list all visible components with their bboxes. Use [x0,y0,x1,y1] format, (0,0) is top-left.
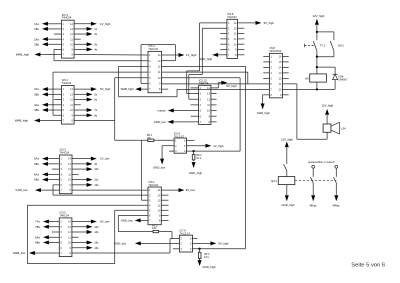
IC5.3 pin3 stub [52,168,60,170]
resistor R9.4 [198,249,216,269]
IC5.10 masse arrow [174,110,199,112]
IC5.10 pin2 riser [187,93,199,95]
svg-text:48Vac: 48Vac [309,203,317,207]
svg-text:1V_high: 1V_high [213,144,224,148]
IC5.3 pin numbers 1-14 [61,157,72,193]
svg-text:74HC04: 74HC04 [199,81,209,85]
IC5.5 body and designator [59,218,72,257]
svg-text:GND_high: GND_high [189,171,203,175]
connector right stubs [283,55,289,57]
svg-text:7Ax: 7Ax [35,220,40,224]
svg-text:5Ax: 5Ax [34,157,39,161]
IC5.1 output wire+arrow node 3x [74,42,98,46]
IC IC5.4 (74HC04) [148,44,162,93]
svg-text:7Bx: 7Bx [35,225,40,229]
svg-text:12V_high: 12V_high [281,137,293,141]
svg-text:8Bx: 8Bx [35,241,40,245]
svg-text:LS4: LS4 [341,126,346,130]
IC5.5 output wire+arrow node 16x [72,246,99,250]
IC5.3 output wire+arrow node 12x [72,183,99,187]
IC5.1 input wire+arrow node 2Bx [34,42,61,46]
IC5.4 feedback loop top [141,82,148,84]
IC5.5 pin numbers 1-14 [60,220,71,256]
IC5.2 pin numbers 1-14 [63,87,74,122]
svg-text:3Ax: 3Ax [34,87,39,91]
IC6.1 GND_low arrow [141,219,149,221]
IC IC5.3 (74HC04) [16,148,111,194]
bus wire to connector pin7 [177,88,269,90]
IC5.5 output wire+arrow node 14x [72,230,99,234]
IC5.5 input wire+arrow node 8Ax [35,235,59,239]
IC7.9 GND_low arrow [141,242,180,244]
svg-text:1V_low: 1V_low [100,157,110,161]
wire R5.1 to IC6.9 pin1 [115,139,148,141]
svg-text:74HC04: 74HC04 [227,15,237,19]
svg-text:1V_high: 1V_high [100,22,111,26]
wire connector pin6 to buzzer loop [283,83,297,85]
wire IC2 pin6 riser to IC5.4 pin4 [53,114,62,116]
IC5.3 input wire+arrow node 5Ax [34,157,59,161]
IC5.5 pin3 stub [52,231,60,233]
junction R9.2 [192,150,194,152]
IC5.3 input wire+arrow node 6Ax [34,172,59,176]
IC5.1 input wire+arrow node 1Bx [34,27,61,31]
IC IC5.10 (74HC04) [199,78,211,124]
IC6.9 pin2 GND_low drop [162,145,174,147]
IC5.8 pin2 wire to bus riser [202,27,227,29]
relay coil K9 [305,74,326,82]
bus wire h2 [189,74,203,76]
IC5.1 input wire+arrow node 2Ax [34,37,61,41]
wire into IC7.9 pin1 [170,238,179,240]
svg-text:1N4007: 1N4007 [338,77,348,81]
wire IC5.5 pin8 to IC7.9 pin1 net [72,252,170,254]
svg-text:2Bx: 2Bx [34,42,39,46]
wire branch to K9.1 [317,31,334,33]
IC5.5 output node 5V_low [72,220,110,224]
switch T7.1 [313,41,325,57]
svg-text:12V_high: 12V_high [313,14,325,18]
switch contact Q9.1 [284,164,287,176]
svg-text:13x: 13x [94,225,99,229]
IC6.9 pin6 stub [187,139,195,141]
svg-text:6Bx: 6Bx [34,178,39,182]
node 12V_high buzzer [321,103,333,124]
wire IC5.3 pin8 to IC6.1 pin1 [72,189,148,191]
IC5.8 pin1 wire to bus riser [200,22,227,24]
wire IC6.1 pin6 drop to R5.2 [118,214,148,216]
IC5.5 input wire+arrow node 7Ax [35,220,59,224]
riser IC5.8 pin2 [201,28,203,74]
svg-text:GND_high: GND_high [203,265,217,269]
IC5.5 node WAB_low [13,251,59,255]
svg-text:GND_low: GND_low [153,166,166,170]
svg-text:austauschbar in zukunft: austauschbar in zukunft [308,161,335,164]
svg-text:masse: masse [157,109,166,113]
IC5.5 output wire+arrow node 15x [72,241,99,245]
svg-text:9V_high: 9V_high [226,84,237,88]
mechanical link dashed [295,179,337,181]
svg-text:9V_low: 9V_low [186,188,196,192]
svg-text:WAB_high: WAB_high [16,53,30,57]
resistor R5.2 [118,223,172,238]
IC5.2 input wire+arrow node 3Bx [34,92,61,96]
IC5.1 pin11 stub [74,38,81,40]
svg-text:10x: 10x [94,167,99,171]
IC5.5 pin11 stub [72,236,79,238]
wire IC1 pin8 to IC5.4 pin1 [74,54,148,56]
svg-text:1V_high: 1V_high [186,53,197,57]
IC5.3 pin11 stub [72,173,79,175]
IC5.8 left stubs [220,33,227,35]
wire rejoin switches [317,56,334,58]
svg-text:K9: K9 [305,76,309,80]
svg-text:74 LS 07: 74 LS 07 [174,134,185,138]
IC5.4 pin10 long wire to v1 [162,77,241,79]
bus vertical v2 [245,66,247,248]
svg-text:16x: 16x [94,246,99,250]
bus wire h1 [187,70,200,72]
svg-text:74HC04: 74HC04 [60,213,70,217]
svg-text:74HC04: 74HC04 [60,151,70,155]
IC6.1 output arrow 9V_low [161,189,178,191]
svg-text:T7.1: T7.1 [320,44,326,48]
svg-text:5V_low: 5V_low [100,220,110,224]
svg-text:GND_low: GND_low [121,219,134,223]
bus wire to connector pin6 [162,83,270,85]
svg-text:3Bx: 3Bx [34,92,39,96]
IC5.2 output wire+arrow node 6x [74,98,98,102]
IC5.2 input wire+arrow node 4Bx [34,108,61,112]
svg-text:6Ax: 6Ax [34,172,39,176]
svg-text:4Ax: 4Ax [34,103,39,107]
IC5.2 node WAB_high [15,118,62,122]
IC5.1 node WAB_high [16,53,62,57]
relay box Q9.1 [271,177,295,207]
wire relay bottom [316,82,318,89]
IC5.3 input wire+arrow node 5Bx [34,162,59,166]
svg-text:GND_low: GND_low [154,120,167,124]
IC5.4 pin8 stub [162,88,169,90]
switch contact S1 [308,161,335,207]
svg-text:WAB_low: WAB_low [13,251,26,255]
svg-text:GND_high: GND_high [199,57,213,61]
loop wire IC6.1 pin5 [115,209,148,211]
svg-text:2Ax: 2Ax [34,37,39,41]
svg-text:1Ax: 1Ax [34,22,39,26]
svg-text:Seite 5 von 6: Seite 5 von 6 [351,263,385,269]
diode VD4 1N4007 [333,74,348,89]
IC IC5.1 (74HC04) [16,13,111,58]
svg-text:WAB_high: WAB_high [15,119,29,123]
riser IC5.8 pin1 [199,23,201,71]
IC7.9 pin4 wire to bus [193,248,246,250]
IC5.3 input wire+arrow node 6Bx [34,178,59,182]
IC IC5.2 (74HC04) [15,78,111,124]
svg-text:GND_high: GND_high [282,203,296,207]
IC5.1 body and designator [62,20,75,58]
switch K9.1 [330,41,344,57]
svg-text:K9.1: K9.1 [338,44,344,48]
junction R9.4 [198,248,200,250]
svg-text:12V_high: 12V_high [321,103,333,107]
IC5.4 pin11 long wire to v3 [162,71,248,73]
IC5.10 output arrow 9V_high [211,87,218,89]
junction top branch [316,31,318,33]
IC5.2 input wire+arrow node 4Ax [34,103,61,107]
svg-text:48Vac: 48Vac [333,203,341,207]
IC5.2 pin11 stub [74,104,81,106]
IC5.2 pin3 stub [54,99,62,101]
IC6.9 output arrow 1V_high [187,145,206,147]
IC6.9 pin3 stub [169,150,174,152]
IC6.1 right stubs [161,194,168,196]
svg-text:5V_high: 5V_high [264,21,275,25]
bus vertical v3 [247,72,249,84]
loop wire IC6.1 pin4 [27,204,148,206]
svg-text:4Bx: 4Bx [34,108,39,112]
svg-text:Q9.1: Q9.1 [271,179,277,183]
buzzer LS4 [323,122,346,139]
wire IC5.3 pin6 drop to IC6.1 pin2 [53,184,59,186]
IC IC6.9 (74LS07) [174,132,187,154]
IC IC5.5 (74HC04) [13,211,110,257]
IC5.3 output node 1V_low [72,157,110,161]
IC6.9 pin4 wire to bus [187,150,241,152]
IC5.2 body and designator [62,86,75,125]
svg-text:GND_high: GND_high [257,111,271,115]
IC5.4 WAB_high arrow [141,88,148,90]
IC5.4 feedback loop bottom [119,65,149,67]
connector pin8 GND_high arrow down [263,94,270,96]
IC7.9 pin6 stub [193,238,198,240]
vertical feed to IC6.1 pin3 [141,140,143,200]
svg-text:10 k: 10 k [204,255,210,259]
svg-text:11x: 11x [94,178,99,182]
svg-text:GND_low: GND_low [114,242,127,246]
wire IC1 pin6 drop [54,48,62,50]
IC IC5.8 (74HC04) [227,12,238,58]
svg-text:GND_low: GND_low [16,188,29,192]
connector left stubs [263,55,269,57]
IC5.8 right stubs [238,27,245,29]
svg-text:DIN41612: DIN41612 [270,49,282,53]
svg-text:74HC04: 74HC04 [62,81,72,85]
wire IC2 pin8 riser to IC5.4 pin5 [74,119,115,121]
resistor R5.1 [147,133,154,141]
svg-text:WAB_high: WAB_high [121,87,135,91]
IC5.3 output wire+arrow node 11x [72,178,99,182]
svg-text:100: 100 [152,226,157,230]
svg-text:14x: 14x [94,230,99,234]
IC5.10 pin3 riser [189,98,199,100]
svg-text:74HC04: 74HC04 [62,16,72,20]
IC5.3 node GND_low [16,188,60,192]
IC5.5 input wire+arrow node 8Bx [35,241,59,245]
IC IC6.1 (74HC04) [148,180,161,225]
wire into IC6.1 pin3 [142,199,149,201]
IC IC7.9 (74LS07) [179,229,192,252]
IC5.3 body and designator [59,155,72,194]
IC5.5 output wire+arrow node 13x [72,225,99,229]
IC7.9 pin3 stub [173,248,180,250]
IC5.4 output arrow 1V_high [162,54,179,56]
svg-text:1Bx: 1Bx [34,27,39,31]
IC5.2 output wire+arrow node 8x [74,113,98,117]
IC5.8 output arrow 5V_high [238,22,256,24]
IC5.4 pin12 long wire to v2 [162,65,246,67]
IC5.3 output wire+arrow node 10x [72,167,99,171]
IC5.1 pin numbers 1-14 [63,22,74,57]
node 12V_high lower [281,137,293,164]
svg-text:8Ax: 8Ax [35,235,40,239]
IC5.2 output wire+arrow node 7x [74,108,98,112]
svg-text:9V_high: 9V_high [218,242,229,246]
IC5.1 output node 1V_high [74,22,111,26]
IC5.8 GND_high arrow [218,54,227,56]
switch contact S2 [333,165,341,207]
IC7.9 output arrow 9V_high [193,242,211,244]
IC5.1 pin3 stub [54,33,62,35]
svg-text:12x: 12x [94,183,99,187]
IC5.2 output node 5V_high [74,87,111,91]
svg-text:74 LS 14: 74 LS 14 [180,232,191,236]
IC5.10 left stubs [191,87,199,89]
svg-text:5Bx: 5Bx [34,162,39,166]
bus vertical v1 [239,78,241,151]
connector X9.8 [269,46,282,98]
mechanical link dashes [305,44,316,46]
svg-text:10 k: 10 k [196,156,202,160]
IC5.2 output wire+arrow node 5x [74,92,98,96]
IC5.1 output wire+arrow node 4x [74,47,98,51]
svg-text:5V_high: 5V_high [100,87,111,91]
junction diode branch [316,66,318,68]
IC5.5 input wire+arrow node 7Bx [35,225,59,229]
IC5.1 output wire+arrow node 2x [74,32,98,36]
IC5.1 output wire+arrow node 1x [74,27,98,31]
resistor R9.2 [189,151,203,175]
IC5.2 input wire+arrow node 3Ax [34,87,61,91]
svg-text:15x: 15x [94,241,99,245]
node 12V_high top [313,14,325,40]
IC5.10 GND_low arrow [173,121,198,123]
svg-text:74HC04: 74HC04 [148,183,158,187]
IC5.1 input wire+arrow node 1Ax [34,22,61,26]
loop wire bottom [27,263,114,265]
svg-text:74HC04: 74HC04 [148,47,158,51]
IC5.10 right stubs [211,93,217,95]
IC5.3 output wire+arrow node 9x [72,162,98,166]
